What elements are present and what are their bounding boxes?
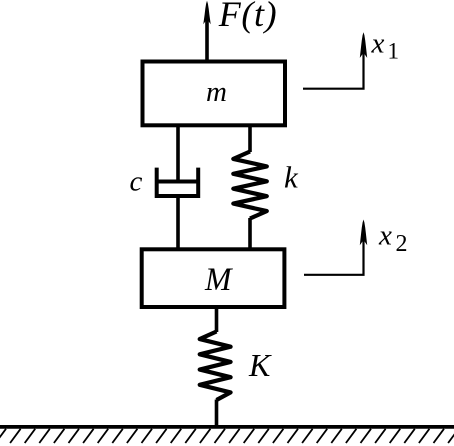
svg-text:1: 1: [388, 39, 400, 64]
svg-text:F(t): F(t): [218, 0, 277, 34]
svg-text:x: x: [371, 28, 385, 60]
svg-text:c: c: [130, 166, 143, 198]
svg-text:2: 2: [396, 231, 408, 257]
svg-text:x: x: [378, 220, 392, 252]
svg-text:k: k: [284, 159, 299, 194]
svg-text:m: m: [206, 76, 227, 108]
svg-text:K: K: [248, 347, 272, 383]
svg-text:M: M: [204, 262, 233, 298]
